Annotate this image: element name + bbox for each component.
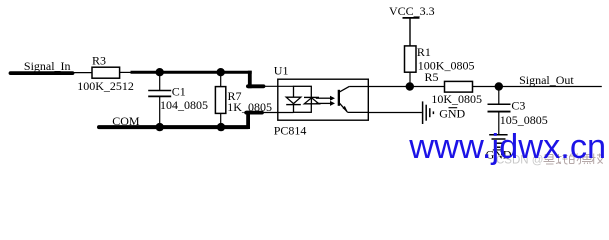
junction top of C1: [156, 68, 164, 76]
wire Signal_In bus: [11, 71, 73, 75]
watermark CJK glyph 1 (gui): [544, 155, 555, 165]
node COM: [99, 114, 248, 128]
watermark CJK glyph 2 (fei): [556, 154, 568, 164]
junction C3: [495, 82, 503, 90]
wire top rail thick: [131, 71, 252, 74]
junction COM-C1: [156, 123, 164, 131]
wire Signal_In to R3: [73, 72, 93, 74]
svg-text:R1: R1: [417, 45, 431, 59]
wire R3 to thick rail: [120, 71, 132, 73]
wire emitter to ground: [368, 112, 422, 114]
node Signal_In: [11, 59, 73, 73]
wire R1 to collector line: [409, 72, 411, 86]
svg-text:105_0805: 105_0805: [500, 113, 548, 127]
diode D-right of U1: [304, 97, 319, 103]
svg-text:PC814: PC814: [274, 124, 307, 138]
svg-text:Signal_Out: Signal_Out: [519, 73, 574, 87]
wire collector line left: [368, 86, 444, 88]
light arrows U1: [316, 96, 335, 106]
svg-text:www.jdwx.cn: www.jdwx.cn: [408, 128, 606, 166]
diode D-left of U1: [286, 97, 301, 104]
svg-text:C1: C1: [172, 85, 186, 99]
svg-text:VCC_3.3: VCC_3.3: [389, 4, 435, 18]
capacitor C3: [488, 87, 548, 135]
wire elbow to U1 pin1: [248, 71, 252, 89]
svg-text:C3: C3: [511, 99, 525, 113]
junction COM-R7: [217, 123, 225, 131]
wire elbow to U1 pin2: [246, 111, 250, 129]
svg-text:GND: GND: [439, 107, 465, 121]
svg-text:10K_0805: 10K_0805: [431, 92, 482, 106]
wire R5 to Signal_Out: [473, 86, 602, 88]
resistor R7: [215, 72, 272, 127]
transistor Q of U1: [338, 86, 369, 112]
watermark CJK glyph 4 (hei): [582, 155, 592, 165]
wire pin1 thin: [264, 85, 294, 87]
resistor R1: [405, 45, 475, 73]
wire pin2 thin: [262, 112, 294, 114]
diode bridge rails U1: [294, 86, 312, 112]
svg-text:104_0805: 104_0805: [160, 98, 208, 112]
junction top of R7: [217, 68, 225, 76]
ground at C3: [486, 135, 512, 162]
node VCC_3.3: [389, 4, 435, 46]
junction R1: [406, 82, 414, 90]
svg-text:R5: R5: [425, 70, 439, 84]
op-amp U1 optocoupler PC814: [274, 63, 369, 137]
resistor R3: [77, 53, 134, 93]
capacitor C1: [148, 72, 208, 127]
svg-text:U1: U1: [274, 63, 289, 77]
wire COM bus: [99, 125, 248, 129]
svg-text:R3: R3: [92, 53, 106, 67]
watermark CJK glyph 3 (de): [570, 154, 581, 165]
svg-text:100K_2512: 100K_2512: [77, 79, 134, 93]
watermark CJK glyph 5 (ban): [592, 154, 604, 165]
ground horizontal at emitter: [423, 101, 466, 124]
svg-text:Signal_In: Signal_In: [24, 59, 71, 73]
resistor R5: [425, 70, 483, 106]
